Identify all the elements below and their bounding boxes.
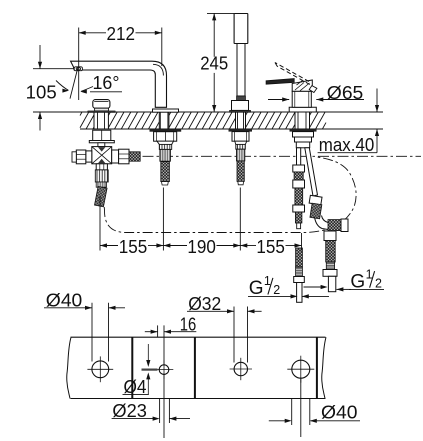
svg-text:Ø23: Ø23: [112, 401, 146, 421]
svg-text:16°: 16°: [93, 73, 120, 93]
svg-text:190: 190: [187, 237, 216, 257]
svg-text:Ø40: Ø40: [321, 402, 358, 422]
svg-text:max.40: max.40: [319, 135, 375, 155]
svg-text:105: 105: [26, 82, 57, 102]
svg-text:212: 212: [107, 24, 136, 44]
svg-text:Ø40: Ø40: [46, 290, 83, 310]
svg-text:1: 1: [366, 267, 373, 281]
svg-text:155: 155: [119, 237, 148, 257]
svg-text:Ø65: Ø65: [327, 83, 364, 103]
svg-text:Ø4: Ø4: [124, 377, 147, 397]
svg-text:1: 1: [264, 274, 271, 288]
svg-text:155: 155: [256, 237, 285, 257]
svg-text:245: 245: [200, 53, 228, 73]
svg-text:2: 2: [273, 283, 280, 297]
svg-text:2: 2: [375, 276, 382, 290]
